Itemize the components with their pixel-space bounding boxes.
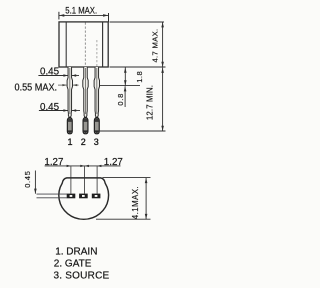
lead 1 (front view) <box>67 67 72 117</box>
dimension 0.45 bottom-view label (rotated) <box>23 171 32 188</box>
extension line body top right <box>110 21 165 23</box>
body inner line right <box>102 23 104 67</box>
extension line pad 2 vertical <box>84 166 86 194</box>
svg-text:2. GATE: 2. GATE <box>54 259 92 270</box>
dimension 12.7 MIN line <box>161 68 164 131</box>
svg-text:3: 3 <box>94 137 99 147</box>
dimension 5.1 MAX label <box>65 6 97 16</box>
dimension 0.55 MAX label <box>15 82 58 93</box>
svg-text:1.27: 1.27 <box>44 157 63 168</box>
extension line lead shoulder right <box>100 85 140 87</box>
pad 1 (bottom view) <box>67 194 76 199</box>
extension line bottom-view bottom right <box>96 218 151 220</box>
dimension 5.1 line with arrows <box>59 12 109 22</box>
dimension 4.7 MAX line <box>161 22 164 67</box>
dimension 0.55 leader and arrows <box>58 84 79 86</box>
pin list label 1. DRAIN <box>55 246 97 257</box>
extension line body bottom right <box>110 66 166 68</box>
svg-text:4.1MAX.: 4.1MAX. <box>131 186 140 219</box>
dimension 1.27 line with arrows <box>45 165 121 167</box>
extension line bottom-view top right <box>103 177 151 179</box>
pin list label 3. SOURCE <box>54 271 110 282</box>
dimension 0.45 bottom-view line and arrow <box>34 171 37 194</box>
svg-text:2: 2 <box>81 137 86 147</box>
pad 3 (bottom view) <box>92 194 101 199</box>
package body (front view) <box>59 22 108 67</box>
dimension 0.8 line <box>124 86 127 107</box>
extension line lead end right <box>100 130 166 132</box>
body hidden lead line 3 (dashed) <box>96 40 98 67</box>
lead 1 end capsule <box>67 117 72 133</box>
dimension 1.27 right label <box>104 157 123 168</box>
dimension 1.8 label (rotated) <box>135 71 144 83</box>
dimension 0.8 label (rotated) <box>116 93 125 106</box>
pin number 3 <box>94 137 99 147</box>
dimension 0.45 bottom label <box>40 102 60 113</box>
svg-text:1.27: 1.27 <box>104 157 123 168</box>
dimension 4.1 MAX label (rotated) <box>131 186 140 219</box>
svg-text:0.45: 0.45 <box>40 102 60 113</box>
svg-text:1: 1 <box>67 137 72 147</box>
extension line pad 3 vertical <box>96 166 98 194</box>
lead 3 end capsule <box>94 117 99 133</box>
lead 2 end capsule <box>83 117 88 133</box>
bottom view outline (flat-top circle) <box>59 178 109 219</box>
lead 2 (front view) <box>83 67 88 117</box>
svg-text:4.7 MAX.: 4.7 MAX. <box>150 28 159 62</box>
dimension 1.27 left label <box>44 157 63 168</box>
extension line pad1 bottom left <box>37 197 68 199</box>
svg-text:0.55 MAX.: 0.55 MAX. <box>15 82 58 93</box>
body hidden lead line 2 (dashed) <box>84 23 86 67</box>
svg-text:0.8: 0.8 <box>116 93 125 106</box>
svg-text:1.8: 1.8 <box>135 71 144 83</box>
dimension 12.7 MIN label (rotated) <box>146 85 155 120</box>
svg-text:3. SOURCE: 3. SOURCE <box>54 271 110 282</box>
svg-text:1. DRAIN: 1. DRAIN <box>55 246 97 257</box>
pin list label 2. GATE <box>54 259 92 270</box>
svg-text:0.45: 0.45 <box>23 171 32 188</box>
dimension 4.7 MAX label (rotated) <box>150 28 159 62</box>
dimension 4.1 MAX line <box>145 178 148 219</box>
dimension 0.45 top leader and arrows <box>38 74 79 77</box>
dimension 0.45 bottom leader and arrows <box>39 109 80 112</box>
lead 3 (front view) <box>94 67 99 117</box>
pin number 1 <box>67 137 72 147</box>
pad 2 (bottom view) <box>79 194 88 199</box>
extension line pad 1 vertical <box>70 166 72 194</box>
svg-text:12.7 MIN.: 12.7 MIN. <box>146 85 155 120</box>
extension line pad1 top left <box>37 193 68 195</box>
pin number 2 <box>81 137 86 147</box>
svg-text:5.1 MAX.: 5.1 MAX. <box>65 6 97 16</box>
body inner line left <box>65 23 67 67</box>
dimension 1.8 line <box>124 67 127 85</box>
dimension 0.45 top label <box>40 67 60 78</box>
